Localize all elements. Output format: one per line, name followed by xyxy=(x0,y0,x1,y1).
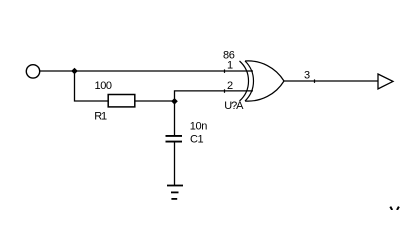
wire junction J2 up and right to XOR pin 2 xyxy=(175,91,254,101)
XOR body bottom curve xyxy=(245,81,284,101)
svg-text:3: 3 xyxy=(304,70,310,82)
svg-text:1: 1 xyxy=(227,60,233,72)
wire junction J2 down to capacitor xyxy=(174,101,176,136)
stray mark right (cut text at bottom edge) xyxy=(397,207,399,210)
XOR body left arc xyxy=(245,61,253,101)
XOR input rear arc xyxy=(240,61,249,101)
wire resistor to junction J2 xyxy=(136,100,175,102)
pin 1 end tick xyxy=(224,69,226,73)
resistor R1 body xyxy=(108,95,135,107)
wire junction J1 down to resistor row xyxy=(75,71,109,101)
XOR gate U?A xyxy=(240,61,285,101)
XOR body top curve xyxy=(245,61,284,81)
stray mark left (cut text at bottom edge) xyxy=(390,207,392,210)
svg-text:C1: C1 xyxy=(190,134,204,146)
svg-text:U?A: U?A xyxy=(224,100,244,112)
pin 2 end tick xyxy=(224,89,226,93)
pin 3 end tick xyxy=(314,79,316,83)
input port P1 xyxy=(26,65,39,78)
capacitor C1 plates xyxy=(166,135,183,137)
ground xyxy=(167,186,183,199)
svg-text:2: 2 xyxy=(227,80,233,92)
svg-text:R1: R1 xyxy=(94,111,107,123)
output port P2 xyxy=(378,74,393,89)
wire input to XOR pin 1 xyxy=(40,70,253,72)
wire capacitor to ground xyxy=(174,142,176,185)
node junction J2 xyxy=(171,98,178,105)
svg-text:10n: 10n xyxy=(190,121,207,133)
wire XOR output to output port xyxy=(284,80,378,82)
node junction J1 xyxy=(71,68,78,75)
svg-text:100: 100 xyxy=(95,80,112,92)
